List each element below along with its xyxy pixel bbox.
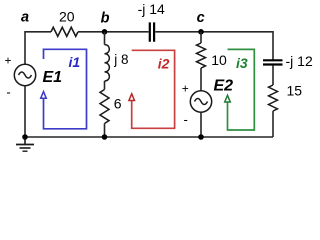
svg-text:-j 14: -j 14	[138, 1, 165, 17]
node a label	[21, 10, 29, 26]
mesh loop i2 (red)	[132, 50, 175, 128]
value label -j 12	[286, 53, 313, 69]
polarity - of E2	[184, 112, 188, 127]
svg-text:+: +	[4, 54, 11, 68]
value label -j 14	[138, 1, 165, 17]
polarity + of E2	[182, 82, 189, 96]
svg-text:15: 15	[287, 83, 303, 99]
node c junction	[198, 29, 204, 35]
ground	[16, 137, 34, 151]
svg-text:10: 10	[211, 52, 227, 68]
mesh arrow i2	[129, 94, 135, 101]
node b junction	[102, 29, 108, 35]
svg-text:i3: i3	[236, 55, 248, 71]
wire left branch upper (a down to E1)	[24, 31, 26, 64]
inductor L j8	[105, 45, 110, 81]
wire bottom rail	[25, 136, 273, 138]
svg-text:+: +	[182, 82, 189, 96]
mesh loop i3 (green)	[228, 49, 255, 130]
wire between -j12 and 15	[272, 65, 274, 85]
svg-text:b: b	[101, 11, 110, 27]
svg-text:-j 12: -j 12	[286, 53, 313, 69]
value label j 8	[113, 52, 128, 67]
svg-text:E1: E1	[43, 69, 63, 86]
resistor R 6 (vertical)	[100, 90, 109, 124]
polarity + of E1	[4, 54, 11, 68]
source E1 (AC source circle)	[14, 64, 35, 85]
source E2 (AC source circle)	[190, 91, 211, 112]
mesh label i1	[69, 54, 81, 70]
svg-text:6: 6	[114, 96, 122, 112]
capacitor C -j14 (top between b and c)	[150, 22, 154, 41]
svg-text:c: c	[197, 10, 205, 26]
label E2	[214, 78, 234, 95]
value label 15	[287, 83, 303, 99]
wire left branch lower (E1 down to bottom rail)	[24, 86, 26, 137]
mesh arrow i3	[225, 95, 231, 102]
wire below 15 to bottom rail corner	[272, 111, 274, 137]
wire top rail a-b-c to right corner	[25, 31, 273, 33]
node junction bottom-left	[22, 134, 28, 140]
node junction bottom of branch b	[102, 134, 108, 140]
resistor R 20 (horizontal, top between a and b)	[51, 27, 78, 36]
node b label	[101, 11, 110, 27]
svg-text:20: 20	[59, 9, 75, 25]
mesh loop i1 (blue)	[44, 49, 87, 129]
wire right branch upper	[272, 31, 274, 60]
wire below E2 to bottom rail	[200, 112, 202, 137]
value label 6	[114, 96, 122, 112]
svg-text:-: -	[6, 85, 10, 100]
svg-text:a: a	[21, 10, 29, 26]
svg-text:E2: E2	[214, 78, 234, 95]
mesh label i3	[236, 55, 248, 71]
value label 20	[59, 9, 75, 25]
svg-text:j 8: j 8	[113, 52, 128, 67]
mesh arrow i1	[41, 92, 47, 99]
resistor R 10 (vertical)	[197, 43, 206, 68]
polarity - of E1	[6, 85, 10, 100]
value label 10	[211, 52, 227, 68]
svg-text:i2: i2	[158, 56, 170, 72]
node junction bottom of branch c	[198, 134, 204, 140]
label E1	[43, 69, 63, 86]
node c label	[197, 10, 205, 26]
mesh label i2	[158, 56, 170, 72]
wire between 10 and E2	[200, 68, 202, 91]
wire below 6 to bottom rail	[104, 124, 106, 138]
svg-text:i1: i1	[69, 54, 81, 70]
svg-text:-: -	[184, 112, 188, 127]
capacitor C -j12 (right branch, horizontal plates)	[263, 60, 283, 64]
wire branch c upper	[200, 32, 202, 43]
resistor R 15 (vertical)	[269, 85, 278, 111]
wire between j8 and 6	[104, 81, 106, 90]
wire branch b upper	[104, 32, 106, 45]
